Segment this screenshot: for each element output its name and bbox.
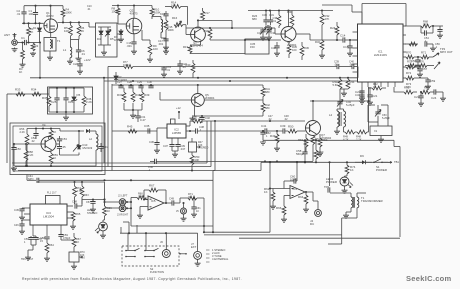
wire top bus 4 [248, 9, 333, 11]
wires into switch [121, 222, 137, 233]
capacitor C45b [14, 220, 25, 234]
trimmer C50 loop [368, 105, 390, 122]
svg-text:R35: R35 [42, 96, 48, 100]
svg-text:LM565: LM565 [172, 131, 182, 135]
wire down j7 [195, 259, 201, 266]
svg-text:0.47: 0.47 [140, 118, 146, 122]
svg-text:.01: .01 [349, 63, 353, 67]
resistor R34 [31, 88, 41, 96]
svg-text:.001: .001 [127, 44, 133, 48]
svg-text:R70: R70 [406, 51, 412, 55]
wire y66 left [108, 67, 164, 82]
feedback R67 [144, 184, 166, 204]
svg-text:100K: 100K [66, 11, 72, 15]
ground pwr top [260, 130, 271, 145]
trimmer cap C32 [257, 28, 266, 41]
LED1 stereo [87, 209, 107, 233]
svg-text:R44: R44 [350, 80, 355, 84]
wire Q1 source to T1 [47, 33, 53, 61]
wire sw out right a [204, 231, 270, 233]
svg-text:100: 100 [171, 4, 176, 8]
resistor R40b [186, 60, 195, 78]
wire jack feed top [82, 198, 106, 200]
svg-text:R64: R64 [49, 243, 54, 247]
capacitor C1 [21, 36, 26, 45]
resistor R77h [123, 61, 133, 68]
IC1 right pins [403, 26, 406, 78]
capacitor C30 [147, 80, 154, 88]
svg-text:100K: 100K [168, 28, 174, 32]
feedback C60 [284, 162, 297, 188]
capacitor C37 [163, 144, 175, 151]
resistor R62 [264, 187, 276, 209]
svg-text:470pF: 470pF [63, 236, 71, 240]
capacitor C56b [33, 236, 43, 245]
resistor R70h [405, 51, 418, 59]
resistor R37 [117, 88, 126, 110]
filter box FL1 [45, 192, 60, 205]
resistor R35 [42, 94, 51, 112]
resistor R72h [405, 65, 420, 75]
wire L4 to y132 [344, 127, 346, 132]
svg-text:+12V: +12V [84, 58, 91, 62]
resistor R46 [192, 115, 202, 123]
opamp IC5 [148, 196, 164, 210]
wire IC1 top [362, 4, 406, 27]
resistor R49 [270, 131, 280, 151]
svg-text:TRC TEST: TRC TEST [21, 258, 34, 261]
wire line D [190, 53, 245, 55]
svg-text:1K: 1K [76, 240, 79, 244]
resistor R52 emitter [311, 136, 321, 162]
resistor R4 [61, 6, 72, 23]
resistor R9 [147, 40, 158, 62]
resistor R8 [112, 6, 120, 25]
svg-text:IC5: IC5 [151, 199, 156, 203]
svg-text:D1: D1 [33, 26, 37, 30]
capacitor C54 loop [421, 26, 433, 43]
IC IC1 [358, 24, 404, 82]
IC3 left pins [24, 208, 30, 220]
wire Q2 gate1 [118, 23, 126, 25]
shield box T1 [44, 38, 56, 52]
ground X1 [378, 136, 384, 143]
svg-text:1K: 1K [373, 86, 376, 89]
resistor R31 [404, 86, 417, 94]
capacitor C15 [343, 39, 353, 56]
resistor R49h [343, 130, 355, 141]
svg-text:R72: R72 [406, 71, 412, 75]
svg-text:J3 RIGHT: J3 RIGHT [117, 214, 129, 217]
svg-text:C37: C37 [163, 144, 168, 148]
svg-text:C53: C53 [62, 137, 67, 141]
svg-text:T1: T1 [57, 39, 61, 43]
svg-text:5-25pF: 5-25pF [382, 117, 390, 120]
shield box C35 [245, 39, 269, 54]
jack J4 [310, 192, 321, 226]
zener D5 [71, 88, 81, 112]
vertical bundle B [207, 121, 215, 171]
svg-text:TP3: TP3 [324, 185, 329, 189]
capacitor C31 [135, 110, 146, 122]
svg-text:C25: C25 [51, 100, 57, 104]
capacitor C61 [191, 197, 201, 217]
svg-text:R71: R71 [421, 51, 427, 55]
watermark SeekIC [406, 274, 452, 283]
input wire minus [137, 207, 148, 219]
capacitor C56a [24, 236, 34, 245]
wire top bus 3 [165, 6, 188, 24]
wire Q1 drain up [50, 6, 52, 19]
power rail right edge [399, 147, 401, 238]
resistor R34v [320, 11, 330, 29]
svg-text:R64: R64 [298, 195, 304, 199]
svg-text:R33: R33 [15, 88, 21, 92]
svg-text:C23: C23 [414, 95, 420, 99]
svg-text:C14: C14 [340, 34, 346, 38]
capacitor C41b [261, 124, 267, 134]
wire q3 base [186, 25, 191, 35]
svg-text:.01: .01 [334, 63, 338, 67]
capacitor C58a [40, 236, 50, 243]
resistor R14 [171, 1, 181, 9]
svg-text:100: 100 [29, 12, 34, 16]
horizontal bundle bottom [12, 163, 215, 171]
svg-text:MPX OUT: MPX OUT [440, 50, 453, 54]
label S2 FUNCTION [150, 267, 164, 274]
wire reg left drop [7, 94, 12, 163]
resistor R4 [30, 43, 39, 56]
resistor R58o [24, 144, 34, 166]
wire line C [210, 39, 281, 41]
svg-text:J6: J6 [160, 240, 163, 244]
resistor R39 [140, 88, 150, 110]
svg-text:Reprinted with permission from: Reprinted with permission from Radio-Ele… [22, 277, 242, 281]
capacitor C16 [127, 41, 138, 54]
wire IC2 out [186, 130, 195, 132]
transformer L4 [329, 109, 346, 127]
svg-text:2.2K: 2.2K [28, 153, 34, 157]
resistor R34b [315, 28, 325, 58]
svg-text:D4: D4 [97, 37, 101, 41]
svg-text:.02: .02 [268, 118, 272, 121]
diode D7b [114, 72, 128, 84]
capacitor C55 [405, 41, 440, 51]
resistor R71h [418, 51, 433, 59]
svg-text:100K: 100K [123, 64, 129, 67]
svg-text:100: 100 [292, 48, 297, 52]
second bus [104, 80, 357, 82]
capacitor C59 [425, 78, 436, 89]
wire into IC2 [112, 128, 167, 131]
varicap D10 [73, 130, 93, 152]
svg-text:1K: 1K [107, 210, 110, 213]
pot R70 box [69, 251, 85, 269]
wire reg bottom [49, 111, 84, 113]
svg-text:.001: .001 [158, 42, 164, 46]
caption text [22, 277, 242, 281]
wire IC5 out [164, 202, 172, 204]
wire Q4 collector [288, 11, 290, 27]
series caps row [164, 60, 358, 78]
IC3 right pins [67, 206, 73, 218]
resistor R59 [276, 206, 287, 222]
power rail top [263, 139, 400, 146]
wire opamp out [305, 191, 313, 193]
resistor R36v [300, 42, 309, 60]
capacitor C24b [177, 60, 187, 74]
capacitor C39b [175, 144, 185, 151]
svg-text:C24: C24 [431, 96, 437, 100]
svg-text:C41: C41 [261, 124, 267, 128]
svg-text:4K: 4K [188, 195, 191, 199]
svg-text:R24: R24 [330, 26, 336, 30]
svg-text:C39: C39 [280, 124, 286, 128]
resistor R38 [131, 88, 141, 110]
svg-text:C36: C36 [149, 140, 154, 144]
resistor R2 [19, 41, 24, 74]
power box left edge [212, 171, 214, 233]
svg-text:2N5484: 2N5484 [193, 44, 203, 48]
capacitor C59b [58, 233, 70, 240]
wire osc mid [56, 144, 79, 155]
main supply bus [30, 77, 357, 79]
ground below R2 [20, 59, 26, 67]
capacitor C4 [76, 40, 86, 62]
svg-text:MV2109: MV2109 [83, 146, 93, 150]
wire Q3 emitter [190, 41, 201, 45]
function switch dashed box [122, 246, 179, 266]
wire bottom third [239, 237, 342, 239]
svg-text:DC: DC [310, 222, 314, 226]
capacitor C50o [11, 144, 21, 166]
svg-text:R31: R31 [404, 86, 410, 90]
svg-text:4.7K: 4.7K [343, 138, 349, 142]
svg-text:.047: .047 [180, 147, 186, 151]
svg-text:2N3904: 2N3904 [205, 96, 215, 100]
svg-text:C45: C45 [14, 208, 19, 212]
IC3 bottom pins [33, 225, 61, 236]
svg-text:STEREO: STEREO [198, 147, 208, 150]
wire Q2 source [133, 34, 135, 42]
transistor Q4 [281, 27, 297, 48]
svg-text:C22: C22 [73, 62, 78, 66]
contact pair mid [179, 253, 187, 255]
capacitor C20 ic1 bottom [355, 90, 365, 101]
svg-text:.02: .02 [31, 139, 35, 143]
diode D3 [114, 29, 124, 42]
svg-text:.01: .01 [87, 8, 91, 11]
quartz box X1 [370, 122, 392, 136]
capacitor C49 [169, 197, 180, 206]
capacitor C46l [148, 159, 193, 172]
svg-text:C48: C48 [72, 200, 77, 204]
wire Q5 collector [197, 85, 199, 94]
resistor R43 [333, 77, 342, 89]
resistor R45 [127, 125, 137, 133]
resistor R32 [421, 86, 434, 94]
resistor R41b [261, 100, 270, 116]
wire Q4 out to IC1 [296, 34, 343, 40]
wire r43 r44 join [340, 89, 348, 96]
capacitor C31 [265, 11, 274, 30]
svg-text:EXT: EXT [191, 245, 197, 249]
resistor R15v [163, 20, 174, 54]
ground reg [63, 112, 69, 120]
transistor Q7 [306, 121, 332, 141]
svg-text:R76: R76 [419, 60, 424, 64]
IC1 left pins [353, 32, 358, 72]
wire line B [186, 27, 263, 29]
capacitor C52o [31, 129, 39, 143]
capacitor C17 [158, 38, 169, 50]
svg-text:STEREO: STEREO [87, 212, 97, 215]
svg-text:R65: R65 [75, 212, 81, 216]
capacitor C56 [411, 56, 421, 68]
resistor R44 [346, 77, 355, 89]
switch S1 [373, 159, 399, 172]
wire switch bus [120, 232, 178, 234]
svg-text:C38: C38 [271, 46, 276, 50]
resistor R24 [330, 22, 339, 41]
label test [21, 258, 34, 261]
svg-text:C21: C21 [372, 94, 378, 98]
wire caprow bottom [124, 109, 142, 111]
wire q4 base [269, 28, 281, 34]
svg-text:R38: R38 [135, 93, 141, 97]
capacitor C14 [340, 34, 357, 43]
svg-text:ANT: ANT [4, 33, 10, 37]
resistor R73h [405, 76, 428, 89]
svg-text:680: 680 [265, 90, 270, 94]
resistor R59o emitter [49, 151, 58, 167]
wire Q7 collector [312, 101, 314, 121]
left tap components [324, 162, 330, 192]
svg-text:C49: C49 [169, 197, 174, 201]
pot R47 box [189, 138, 209, 152]
IC2 bottom pins [172, 138, 178, 144]
capacitor C54o [57, 145, 66, 152]
wire reg top [49, 87, 84, 94]
transistor Q3 [191, 27, 206, 47]
svg-text:LM1310N: LM1310N [374, 53, 387, 57]
trimmer C44 [337, 89, 355, 109]
svg-text:1N914: 1N914 [114, 38, 122, 42]
function labels [212, 248, 229, 261]
svg-text:+12: +12 [176, 106, 181, 110]
varactor D2 [97, 27, 103, 45]
transistor Q6 oscillator [41, 123, 56, 152]
resistor R10 [150, 6, 161, 20]
wire J1 to C1 [17, 42, 24, 44]
capacitor C26 [63, 88, 73, 112]
svg-text:2.2K: 2.2K [356, 138, 362, 142]
transformer T1 [330, 193, 383, 218]
svg-text:C50: C50 [16, 147, 21, 151]
capacitor C43r [355, 87, 365, 104]
svg-text:C32: C32 [257, 31, 262, 35]
resistor R57o [49, 129, 56, 140]
svg-text:D5: D5 [77, 93, 81, 97]
wire y226 out [131, 225, 213, 227]
wire Q7 base [304, 130, 307, 132]
svg-text:Q4: Q4 [42, 123, 46, 127]
wire step left [213, 161, 390, 170]
capacitor C30 [262, 11, 269, 26]
ground L4 [334, 127, 340, 134]
svg-text:680: 680 [252, 17, 257, 21]
capacitor C65 [161, 66, 172, 77]
capacitor C45 [14, 208, 25, 220]
svg-text:FL1 10.7: FL1 10.7 [47, 192, 57, 195]
resistor R6 [77, 22, 84, 36]
label R26 [252, 14, 258, 21]
svg-text:SeekIC.com: SeekIC.com [406, 274, 452, 283]
svg-text:R50: R50 [288, 125, 294, 129]
wire top feed IC1 [322, 5, 362, 24]
capacitor C39 [280, 124, 286, 134]
IC IC2 [167, 119, 186, 138]
resistor R71 [188, 192, 204, 200]
capacitor C42 [296, 140, 308, 163]
svg-text:C46: C46 [14, 224, 19, 227]
svg-text:1K: 1K [264, 190, 268, 194]
resistor R56o [20, 127, 29, 166]
svg-text:.01: .01 [167, 69, 171, 72]
wire Q5 base [160, 92, 191, 100]
resistor R74 [345, 165, 356, 174]
svg-text:C57: C57 [86, 201, 91, 204]
svg-text:.01: .01 [81, 52, 85, 56]
wire IC1 pin mid [394, 87, 404, 92]
resistor R63 [80, 182, 89, 204]
capacitor C29 [137, 80, 144, 88]
svg-text:POWER: POWER [326, 180, 337, 184]
wire top bus left [24, 5, 63, 7]
wire up to R71 [180, 198, 188, 203]
capacitor C24 [431, 89, 443, 100]
capacitor C51o [98, 143, 108, 152]
svg-text:L1: L1 [63, 48, 67, 52]
switch pole 2 [144, 233, 158, 257]
wire line y121 [202, 115, 305, 122]
svg-text:1K: 1K [53, 156, 56, 160]
IC1 bottom pins [362, 82, 395, 87]
resistor R65 [70, 212, 81, 229]
ground below J1 [12, 48, 18, 52]
svg-text:X1: X1 [374, 129, 378, 133]
resistor R1 [27, 23, 34, 42]
antenna input jack J1 [4, 33, 17, 45]
wire rf bus y22 [58, 21, 96, 27]
wire T1 sec down [328, 212, 357, 244]
jack J5 [176, 202, 187, 221]
svg-text:150: 150 [250, 45, 255, 49]
ground right chain [440, 92, 446, 101]
wire y85 collector line [112, 84, 263, 86]
svg-text:R37: R37 [117, 93, 123, 97]
wire r9 top [142, 30, 150, 40]
resistor R67b [61, 233, 81, 252]
coil L1 [63, 47, 73, 64]
resistor R61 [73, 182, 82, 204]
resistor R18v [204, 29, 212, 41]
wire reg bus [12, 93, 49, 95]
svg-text:R32: R32 [424, 86, 430, 90]
capacitor C22b [73, 58, 91, 74]
capacitor C57 [417, 67, 428, 77]
wire top bus 2 [112, 4, 152, 6]
